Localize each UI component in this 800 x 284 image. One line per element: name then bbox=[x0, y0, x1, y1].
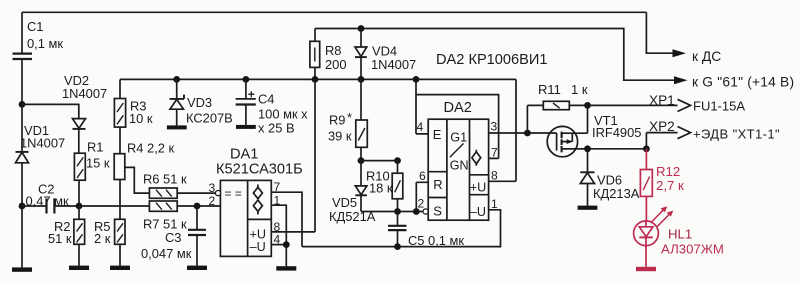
node к ДС arrow bbox=[673, 49, 722, 64]
svg-text:1: 1 bbox=[274, 193, 281, 207]
resistor R6 bbox=[143, 172, 187, 199]
svg-text:DA2 КР1006ВИ1: DA2 КР1006ВИ1 bbox=[436, 52, 547, 68]
node junction row-C3 bbox=[194, 203, 201, 210]
resistor R1 bbox=[74, 140, 110, 207]
svg-text:15 к: 15 к bbox=[86, 156, 110, 171]
resistor R4 bbox=[114, 127, 174, 179]
node junction S row pin6 bbox=[413, 208, 420, 215]
svg-text:К521СА301Б: К521СА301Б bbox=[216, 162, 303, 178]
svg-text:E: E bbox=[433, 127, 442, 142]
svg-text:к ДС: к ДС bbox=[692, 49, 721, 64]
wire DA1 pin1 to ground bbox=[271, 205, 286, 266]
svg-text:2: 2 bbox=[209, 194, 216, 208]
svg-text:R8: R8 bbox=[325, 43, 341, 58]
svg-text:R6 51 к: R6 51 к bbox=[143, 172, 187, 187]
svg-text:1N4007: 1N4007 bbox=[371, 57, 416, 72]
wire R11 right to XP1 bbox=[569, 104, 677, 106]
svg-text:ХР1: ХР1 bbox=[649, 93, 675, 108]
node junction C1-VD1-VD2 bbox=[19, 101, 26, 108]
wire drain row bbox=[562, 148, 647, 150]
DA1 output diamonds bbox=[253, 185, 262, 215]
wire rail to DA2 pin8 bbox=[489, 79, 516, 181]
svg-text:–U: –U bbox=[470, 205, 486, 219]
wire R6 to DA1 pin3 bbox=[177, 192, 216, 194]
svg-text:100 мк х: 100 мк х bbox=[258, 107, 308, 122]
node junction row-R1-R2 bbox=[76, 203, 83, 210]
DA1 title bbox=[216, 147, 303, 178]
diode VD4 bbox=[355, 29, 416, 80]
wire row R9-R10 bbox=[361, 160, 398, 162]
capacitor C4 polarized bbox=[236, 79, 309, 135]
wire DA2 riser pin4 bbox=[416, 79, 428, 133]
node junction rail-C4 bbox=[243, 76, 250, 83]
svg-text:R12: R12 bbox=[656, 164, 680, 179]
wire R11 left drop bbox=[527, 105, 543, 133]
ground R5 bbox=[110, 266, 130, 270]
wire к ДС drop bbox=[646, 12, 673, 53]
node junction R9-R10 row left bbox=[358, 157, 365, 164]
svg-text:*: * bbox=[347, 110, 352, 125]
svg-text:ХР2: ХР2 bbox=[649, 119, 675, 134]
node junction rail-R8 bbox=[312, 76, 319, 83]
svg-text:C3: C3 bbox=[165, 230, 181, 245]
svg-text:2: 2 bbox=[418, 197, 425, 211]
ground VD3 bbox=[167, 125, 187, 129]
svg-text:2,7 к: 2,7 к bbox=[656, 178, 684, 193]
wire bottom rail DA1pin7 C5 DA2pin1 bbox=[302, 210, 501, 247]
ground VD6 bbox=[578, 206, 598, 210]
wire rail2 +14V bbox=[315, 29, 675, 81]
svg-text:к G "61" (+14 В): к G "61" (+14 В) bbox=[692, 75, 794, 90]
node junction pin1 pin4 bbox=[283, 241, 290, 248]
wire DA2 pin3 gate row bbox=[489, 132, 557, 134]
wire row C2 left bbox=[22, 205, 46, 207]
ground R2 bbox=[69, 266, 89, 270]
capacitor C5 bbox=[388, 212, 464, 249]
zener VD3 bbox=[170, 79, 233, 125]
capacitor C1 bbox=[13, 12, 64, 104]
svg-text:= =: = = bbox=[225, 187, 242, 201]
svg-text:3: 3 bbox=[491, 120, 498, 134]
node junction rail2-VD4 bbox=[358, 25, 365, 32]
svg-text:8: 8 bbox=[491, 169, 498, 183]
op-amp DA1 comparator box bbox=[220, 180, 271, 256]
wire DA1 pin4 bbox=[271, 244, 286, 246]
svg-text:КД213А: КД213А bbox=[593, 186, 640, 201]
svg-text:3: 3 bbox=[209, 181, 216, 195]
svg-text:х 25 В: х 25 В bbox=[258, 121, 295, 136]
ground C4 bbox=[236, 125, 256, 129]
svg-text:C1: C1 bbox=[27, 19, 43, 34]
resistor R9 bbox=[328, 79, 367, 160]
node junction S row R10 C5 bbox=[394, 208, 401, 215]
svg-text:IRF4905: IRF4905 bbox=[592, 125, 641, 140]
svg-text:R1: R1 bbox=[87, 140, 103, 155]
ground HL1 red bbox=[636, 267, 656, 271]
svg-text:18 к: 18 к bbox=[369, 181, 393, 196]
node junction drain R12 bbox=[643, 145, 650, 152]
node junction R11-VT1 source bbox=[584, 102, 591, 109]
DA2 titles bbox=[436, 52, 547, 116]
svg-text:R9: R9 bbox=[329, 113, 345, 128]
svg-text:АЛ307ЖМ: АЛ307ЖМ bbox=[661, 242, 724, 257]
svg-text:R: R bbox=[433, 177, 442, 192]
svg-text:+ЭДВ "ХТ1-1": +ЭДВ "ХТ1-1" bbox=[693, 127, 780, 142]
svg-text:0,1 мк: 0,1 мк bbox=[27, 36, 63, 51]
capacitor C2 bbox=[26, 182, 70, 214]
node junction rail-DA2riser bbox=[413, 76, 420, 83]
node к G arrow bbox=[674, 75, 794, 90]
resistor R3 bbox=[114, 79, 153, 127]
svg-text:200: 200 bbox=[325, 57, 347, 72]
diode VD6 bbox=[580, 149, 639, 206]
node junction gate R11 bbox=[524, 130, 531, 137]
resistor R11 bbox=[538, 82, 588, 110]
wire R7 to DA1 pin2 bbox=[177, 205, 220, 207]
DA1 pin3 inversion circle bbox=[215, 191, 220, 196]
svg-text:R4 2,2 к: R4 2,2 к bbox=[127, 141, 175, 156]
wire rail1 к ДС top bbox=[22, 11, 646, 13]
svg-text:7: 7 bbox=[274, 180, 281, 194]
svg-text:4: 4 bbox=[274, 233, 281, 247]
svg-text:DA2: DA2 bbox=[444, 100, 472, 116]
ground VD1 column bbox=[12, 267, 32, 271]
wire R4-R5 link crossing row bbox=[119, 180, 121, 220]
svg-text:1N4007: 1N4007 bbox=[62, 86, 107, 101]
node XP1 plug bbox=[649, 93, 745, 114]
ground DA1 bbox=[276, 266, 296, 270]
wire row S input bbox=[361, 211, 423, 213]
svg-text:S: S bbox=[433, 204, 442, 219]
wire row C2 to R7 bbox=[55, 205, 150, 207]
svg-text:6: 6 bbox=[419, 169, 426, 183]
svg-text:C4: C4 bbox=[258, 92, 274, 107]
svg-text:10 к: 10 к bbox=[129, 111, 153, 126]
resistor R7 bbox=[143, 201, 187, 232]
ground C3 bbox=[187, 266, 207, 270]
wire DA2 +U branch pin7 bbox=[416, 95, 499, 159]
svg-text:39 к: 39 к bbox=[328, 129, 352, 144]
node junction rail-VD4 bbox=[358, 76, 365, 83]
diode VD2 bbox=[62, 73, 107, 153]
DA1 pin labels bbox=[209, 180, 281, 247]
wire XP2 jog bbox=[646, 133, 677, 149]
resistor R10 bbox=[366, 161, 403, 212]
svg-text:DA1: DA1 bbox=[230, 147, 258, 163]
node junction row-R10 bbox=[394, 157, 401, 164]
svg-text:FU1-15А: FU1-15А bbox=[693, 99, 745, 114]
node junction rail-VD3 bbox=[173, 76, 180, 83]
timer DA2 box bbox=[428, 119, 488, 220]
resistor R2 bbox=[48, 206, 85, 266]
LED HL1 bbox=[634, 206, 724, 267]
resistor R8 bbox=[310, 29, 347, 80]
node XP2 plug bbox=[649, 119, 780, 141]
transistor VT1 MOSFET bbox=[547, 105, 641, 156]
node junction left column row bbox=[19, 203, 26, 210]
svg-text:1N4007: 1N4007 bbox=[20, 136, 65, 151]
svg-text:КС207В: КС207В bbox=[186, 111, 233, 126]
svg-text:1 к: 1 к bbox=[571, 82, 588, 97]
svg-text:+U: +U bbox=[470, 181, 486, 195]
svg-text:–U: –U bbox=[250, 240, 266, 254]
svg-text:HL1: HL1 bbox=[668, 227, 692, 242]
wire DA2 pin6 to S node bbox=[416, 182, 428, 211]
wire riser R8 to DA1 pin8 bbox=[271, 79, 315, 232]
wire R4 tap to R6 bbox=[125, 167, 150, 193]
DA2 output diamond bbox=[472, 150, 481, 166]
svg-text:51 к: 51 к bbox=[48, 231, 72, 246]
svg-text:VD5: VD5 bbox=[332, 195, 357, 210]
wire DA1 pin7 out bbox=[271, 192, 302, 246]
svg-text:G1: G1 bbox=[450, 131, 467, 145]
resistor R12 red bbox=[640, 149, 684, 221]
svg-text:0,047 мк: 0,047 мк bbox=[141, 246, 192, 261]
wire to VD2 bbox=[22, 104, 79, 118]
node junction bottom rail C5 bbox=[394, 243, 401, 250]
node junction drain VD6 bbox=[584, 145, 591, 152]
diode VD5 bbox=[329, 161, 376, 224]
DA2 S inversion circle bbox=[423, 209, 428, 214]
svg-text:GN: GN bbox=[450, 159, 469, 173]
capacitor C3 bbox=[141, 206, 206, 266]
wire rail internal +V y79 bbox=[120, 78, 516, 80]
svg-text:VD3: VD3 bbox=[187, 95, 212, 110]
svg-text:7: 7 bbox=[491, 146, 498, 160]
diode VD1 bbox=[16, 104, 66, 267]
svg-text:1: 1 bbox=[491, 197, 498, 211]
svg-text:R11: R11 bbox=[538, 82, 561, 97]
DA2 pin labels bbox=[417, 120, 499, 212]
svg-text:2 к: 2 к bbox=[94, 231, 111, 246]
svg-text:4: 4 bbox=[417, 120, 424, 134]
resistor R5 bbox=[94, 219, 125, 266]
